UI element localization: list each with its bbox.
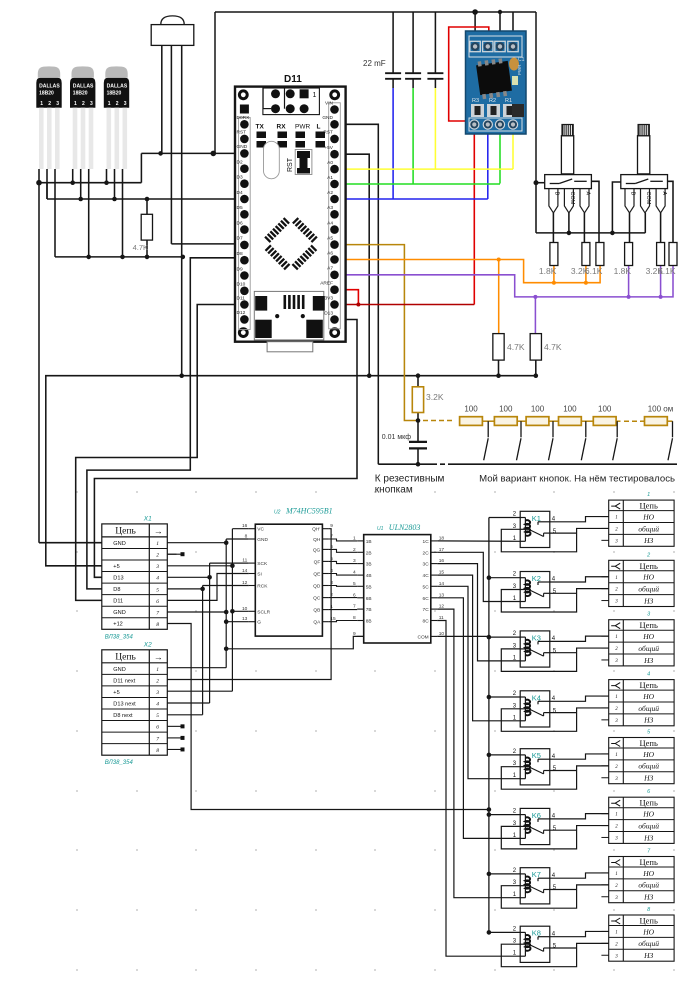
svg-text:3: 3: [155, 690, 159, 696]
svg-text:НЗ: НЗ: [643, 893, 653, 902]
svg-text:общий: общий: [638, 762, 659, 771]
svg-text:M74HC595B1: M74HC595B1: [285, 507, 333, 516]
svg-text:+12: +12: [113, 622, 123, 628]
svg-text:7: 7: [353, 604, 356, 610]
svg-text:VC: VC: [257, 527, 264, 533]
svg-text:1: 1: [108, 101, 111, 107]
svg-text:X2: X2: [143, 641, 152, 648]
svg-text:QA: QA: [313, 620, 321, 626]
svg-text:D10: D10: [237, 282, 246, 288]
svg-text:1: 1: [156, 667, 159, 673]
svg-text:100: 100: [499, 405, 513, 414]
svg-text:8: 8: [156, 748, 159, 754]
svg-text:Цепь: Цепь: [640, 620, 658, 630]
svg-text:1: 1: [615, 872, 618, 877]
svg-text:GND: GND: [257, 537, 268, 543]
svg-text:D4: D4: [237, 190, 243, 196]
svg-text:18B20: 18B20: [39, 91, 54, 97]
svg-text:НЗ: НЗ: [643, 656, 653, 665]
svg-text:Цепь: Цепь: [640, 857, 658, 867]
svg-text:4: 4: [156, 575, 159, 582]
svg-text:3B: 3B: [366, 562, 372, 568]
svg-text:4C: 4C: [423, 573, 430, 579]
svg-text:D2: D2: [237, 160, 243, 166]
svg-text:VIN: VIN: [325, 100, 334, 106]
svg-text:D5: D5: [237, 205, 243, 211]
svg-text:общий: общий: [638, 881, 659, 890]
svg-text:U2: U2: [274, 510, 281, 516]
svg-text:22 mF: 22 mF: [363, 59, 386, 68]
svg-text:4: 4: [156, 701, 159, 708]
svg-text:D13 next: D13 next: [113, 701, 136, 707]
svg-text:1.8K: 1.8K: [614, 266, 632, 276]
svg-text:0.01 мкф: 0.01 мкф: [382, 434, 411, 441]
svg-text:DALLAS: DALLAS: [39, 84, 60, 90]
svg-text:6.1K: 6.1K: [585, 266, 603, 276]
svg-text:общий: общий: [638, 821, 659, 830]
svg-text:D13: D13: [324, 310, 333, 316]
svg-text:COM: COM: [569, 192, 575, 205]
svg-text:6: 6: [156, 599, 159, 605]
svg-text:DALLAS: DALLAS: [73, 84, 94, 90]
svg-text:4.7K: 4.7K: [544, 342, 562, 352]
svg-text:COM: COM: [417, 634, 428, 640]
svg-text:3: 3: [56, 101, 59, 107]
svg-text:100: 100: [563, 405, 577, 414]
svg-text:НО: НО: [642, 692, 654, 701]
svg-text:A7: A7: [327, 266, 333, 272]
svg-text:6: 6: [156, 725, 159, 731]
svg-text:Цепь: Цепь: [640, 561, 658, 571]
svg-text:8: 8: [156, 622, 159, 628]
svg-text:Цепь: Цепь: [640, 501, 658, 511]
svg-text:НО: НО: [642, 809, 654, 818]
svg-text:TX: TX: [256, 124, 265, 131]
svg-text:D11: D11: [237, 295, 246, 301]
svg-text:1C: 1C: [423, 539, 430, 545]
svg-text:QE: QE: [313, 572, 320, 578]
svg-text:QD: QD: [313, 584, 321, 590]
svg-text:3C: 3C: [423, 562, 430, 568]
svg-text:Цепь: Цепь: [640, 798, 658, 808]
svg-text:6C: 6C: [423, 596, 430, 602]
svg-text:A: A: [661, 192, 667, 196]
svg-text:U1: U1: [377, 526, 384, 532]
svg-text:B: B: [630, 192, 636, 196]
svg-text:1: 1: [313, 92, 317, 99]
svg-text:Цепь: Цепь: [640, 916, 658, 926]
svg-text:GND: GND: [113, 541, 125, 547]
svg-text:НО: НО: [642, 512, 654, 521]
svg-text:QH': QH': [312, 527, 320, 533]
svg-text:4.7K: 4.7K: [507, 342, 525, 352]
svg-text:QC: QC: [313, 596, 321, 602]
svg-text:RST: RST: [287, 157, 294, 172]
svg-text:RCK: RCK: [257, 584, 268, 590]
svg-text:1: 1: [615, 695, 618, 700]
svg-text:Мой вариант кнопок. На нём тес: Мой вариант кнопок. На нём тестировалось: [479, 474, 675, 485]
svg-text:4.7K: 4.7K: [133, 243, 148, 252]
svg-text:2: 2: [156, 553, 159, 559]
svg-text:D11: D11: [284, 74, 302, 85]
svg-text:8C: 8C: [423, 619, 430, 625]
svg-text:A6: A6: [327, 250, 333, 256]
svg-text:ВЛ38_354: ВЛ38_354: [105, 634, 134, 640]
svg-text:1B: 1B: [366, 539, 372, 545]
svg-text:общий: общий: [638, 704, 659, 713]
svg-text:D0RX: D0RX: [237, 115, 251, 121]
svg-text:7B: 7B: [366, 607, 372, 613]
svg-text:1.8K: 1.8K: [539, 266, 557, 276]
svg-text:1: 1: [615, 813, 618, 818]
svg-text:НЗ: НЗ: [643, 833, 653, 842]
svg-text:3: 3: [90, 101, 93, 107]
svg-text:2: 2: [116, 101, 119, 107]
svg-text:RST: RST: [237, 130, 247, 136]
svg-text:7: 7: [156, 736, 159, 742]
svg-text:GND: GND: [322, 115, 333, 121]
svg-text:D8: D8: [113, 587, 120, 593]
svg-text:4B: 4B: [366, 573, 372, 579]
svg-text:18B20: 18B20: [107, 91, 122, 97]
svg-text:1: 1: [156, 541, 159, 547]
svg-text:→: →: [154, 526, 163, 536]
svg-text:общий: общий: [638, 584, 659, 593]
svg-text:SCLR: SCLR: [257, 609, 270, 615]
svg-text:100: 100: [464, 405, 478, 414]
svg-text:НЗ: НЗ: [643, 536, 653, 545]
svg-text:1: 1: [615, 930, 618, 935]
svg-text:3.2K: 3.2K: [426, 392, 444, 402]
svg-text:5: 5: [156, 713, 159, 719]
svg-text:SI: SI: [257, 572, 262, 578]
svg-text:НО: НО: [642, 573, 654, 582]
svg-text:100: 100: [531, 405, 545, 414]
svg-text:НЗ: НЗ: [643, 716, 653, 725]
svg-text:RX: RX: [277, 124, 287, 131]
svg-text:1: 1: [615, 635, 618, 640]
svg-text:2: 2: [48, 101, 51, 107]
svg-text:+5: +5: [113, 690, 119, 696]
svg-text:2C: 2C: [423, 550, 430, 556]
svg-text:18B20: 18B20: [73, 91, 88, 97]
svg-text:X1: X1: [143, 515, 152, 522]
svg-text:D6: D6: [237, 220, 243, 226]
svg-text:R3: R3: [472, 98, 479, 104]
svg-text:COM: COM: [645, 192, 651, 205]
svg-text:НО: НО: [642, 927, 654, 936]
svg-text:C1: C1: [518, 57, 525, 63]
svg-text:100: 100: [598, 405, 612, 414]
svg-text:D13: D13: [113, 576, 123, 582]
svg-text:7: 7: [156, 610, 159, 616]
svg-text:D9: D9: [237, 266, 243, 272]
svg-text:L: L: [317, 124, 321, 131]
svg-text:НЗ: НЗ: [643, 596, 653, 605]
svg-text:К резестивным: К резестивным: [375, 474, 445, 485]
svg-text:общий: общий: [638, 939, 659, 948]
svg-text:DALLAS: DALLAS: [107, 84, 128, 90]
svg-text:QB: QB: [313, 608, 320, 614]
svg-text:A: A: [585, 192, 591, 196]
svg-text:D11 next: D11 next: [113, 678, 135, 684]
svg-text:НО: НО: [642, 750, 654, 759]
svg-text:PWR: PWR: [517, 64, 522, 75]
svg-text:QH: QH: [313, 537, 321, 543]
svg-text:D8: D8: [237, 251, 243, 257]
svg-text:3: 3: [124, 101, 127, 107]
svg-text:Цепь: Цепь: [115, 526, 136, 536]
svg-text:кнопкам: кнопкам: [375, 485, 413, 496]
svg-text:GND: GND: [237, 144, 248, 150]
svg-text:4: 4: [647, 672, 650, 678]
svg-text:5C: 5C: [423, 584, 430, 590]
svg-text:2: 2: [82, 101, 85, 107]
svg-text:общий: общий: [638, 644, 659, 653]
svg-text:3: 3: [155, 564, 159, 570]
svg-text:НЗ: НЗ: [643, 951, 653, 960]
svg-text:1: 1: [40, 101, 43, 107]
svg-text:1: 1: [647, 492, 650, 498]
svg-text:3V3: 3V3: [324, 295, 333, 301]
svg-text:6.1K: 6.1K: [658, 266, 676, 276]
svg-text:Цепь: Цепь: [640, 738, 658, 748]
svg-text:QG: QG: [313, 547, 321, 553]
svg-text:5: 5: [156, 587, 159, 593]
svg-text:R1: R1: [505, 98, 512, 104]
svg-text:2: 2: [646, 552, 650, 558]
svg-text:D7: D7: [237, 236, 243, 242]
svg-text:A1: A1: [327, 175, 333, 181]
svg-text:+5V: +5V: [324, 145, 333, 151]
svg-text:ULN2803: ULN2803: [389, 523, 421, 532]
svg-text:2: 2: [156, 679, 159, 685]
svg-text:A5: A5: [327, 235, 333, 241]
svg-text:A2: A2: [327, 190, 333, 196]
svg-text:A0: A0: [327, 160, 333, 166]
svg-text:100 ом: 100 ом: [648, 405, 674, 414]
svg-text:1: 1: [615, 516, 618, 521]
svg-text:8B: 8B: [366, 619, 372, 625]
svg-text:НЗ: НЗ: [643, 774, 653, 783]
svg-text:1: 1: [615, 576, 618, 581]
svg-text:5B: 5B: [366, 584, 372, 590]
svg-text:R2: R2: [489, 98, 496, 104]
svg-text:GND: GND: [113, 610, 125, 616]
svg-text:НО: НО: [642, 869, 654, 878]
svg-text:общий: общий: [638, 524, 659, 533]
svg-text:A4: A4: [327, 220, 333, 226]
svg-text:D8 next: D8 next: [113, 713, 133, 719]
svg-text:1: 1: [74, 101, 77, 107]
svg-text:ВЛ38_354: ВЛ38_354: [105, 760, 134, 766]
svg-text:B: B: [554, 192, 560, 196]
svg-text:7C: 7C: [423, 607, 430, 613]
svg-text:SCK: SCK: [257, 561, 268, 567]
svg-text:1: 1: [615, 753, 618, 758]
svg-text:G: G: [257, 620, 261, 626]
svg-text:A3: A3: [327, 205, 333, 211]
svg-text:→: →: [154, 652, 163, 662]
svg-text:Цепь: Цепь: [640, 680, 658, 690]
svg-text:Цепь: Цепь: [115, 652, 136, 662]
svg-text:2B: 2B: [366, 550, 372, 556]
svg-text:GND: GND: [113, 667, 125, 673]
svg-text:6B: 6B: [366, 596, 372, 602]
svg-text:D12: D12: [237, 310, 246, 316]
svg-text:QF: QF: [314, 559, 321, 565]
svg-text:AREF: AREF: [320, 281, 333, 287]
svg-text:D3: D3: [237, 175, 243, 181]
svg-text:PWR: PWR: [295, 124, 310, 131]
svg-text:+5: +5: [113, 564, 119, 570]
svg-text:НО: НО: [642, 632, 654, 641]
svg-text:D11: D11: [113, 599, 123, 605]
